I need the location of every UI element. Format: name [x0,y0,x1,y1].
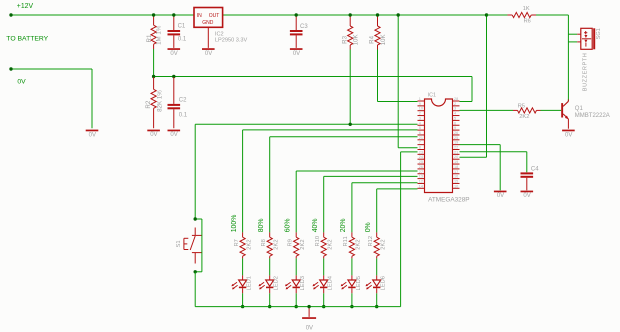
svg-text:MMBT2222A: MMBT2222A [575,113,610,119]
svg-text:80%: 80% [258,219,265,233]
svg-text:SG1: SG1 [596,28,602,39]
wire IC to LED4 column [324,175,418,177]
svg-text:0V: 0V [497,193,504,199]
svg-text:25: 25 [454,136,458,140]
svg-text:0V: 0V [523,193,530,199]
node battery 0V start [9,67,12,70]
node VCC rail [397,13,400,16]
wire AREF pin [460,156,487,158]
svg-text:5: 5 [454,116,456,120]
svg-text:R9: R9 [288,239,294,246]
wire R6 to buzzer [536,14,568,16]
svg-text:21: 21 [454,150,458,154]
svg-text:R8: R8 [261,239,267,246]
wire +12V rail left [11,14,194,16]
svg-text:2K2: 2K2 [519,114,529,120]
ground under C1 [168,48,181,50]
svg-text:1M 1%: 1M 1% [155,25,162,45]
node divider R1R2 [152,75,155,78]
svg-text:0.1: 0.1 [178,37,187,43]
node rail col 3 [295,305,298,308]
wire R3 to switch line [349,50,351,125]
svg-text:2: 2 [454,102,456,106]
capacitor C4 [521,172,534,174]
wire IC to LED3 column [296,170,417,172]
svg-text:1: 1 [419,97,421,101]
led LED3 [295,275,297,280]
wire switch to rail [194,272,196,307]
capacitor C2 [173,77,175,104]
ground under IC2 [202,48,215,50]
ground under C3 [290,48,303,50]
wire rail ground tap [308,307,310,317]
wire switch to IC [195,123,417,125]
svg-text:60%: 60% [284,219,291,233]
node rail col 4 [322,305,325,308]
wire gnd pin to ground [460,144,501,146]
svg-text:28: 28 [454,97,458,101]
svg-text:0.1: 0.1 [179,113,188,119]
svg-text:40%: 40% [312,219,319,233]
svg-text:8: 8 [419,146,421,150]
wire IC to LED2 column [270,136,418,138]
node R3 top [349,13,352,16]
wire buzzer pin1 [568,33,577,35]
svg-text:0V: 0V [170,132,177,138]
buzzer SG1 [577,33,581,35]
led LED1 [242,275,244,280]
svg-text:14: 14 [419,184,423,188]
svg-text:R2: R2 [145,100,152,108]
resistor R2 [153,77,155,89]
wire LED5 to rail [351,293,353,306]
svg-text:4: 4 [419,121,421,125]
svg-text:7: 7 [419,141,421,145]
resistor R4 [377,16,379,26]
wire R8 to LED2 [269,258,271,275]
svg-text:23: 23 [419,150,423,154]
svg-text:13: 13 [419,175,423,179]
svg-text:IN: IN [197,13,202,19]
ground bottom rail [302,317,316,319]
wire R9 to LED3 [295,258,297,275]
wire IC to LED5 column [352,182,418,184]
wire LED3 to rail [295,293,297,306]
capacitor C3 [295,16,297,30]
svg-text:C4: C4 [531,167,539,173]
wire IC2 GND pin [207,27,209,48]
wire R1 to divider [153,49,155,77]
svg-text:+12V: +12V [17,3,34,10]
svg-text:12: 12 [419,179,423,183]
node switch top [194,217,197,220]
svg-text:IC1: IC1 [428,93,436,99]
svg-text:LED6: LED6 [381,276,387,291]
svg-text:C3: C3 [300,24,308,30]
ground under C2 [168,130,181,132]
wire R7 to LED1 [242,258,244,275]
resistor R8 [269,232,271,237]
svg-text:Q1: Q1 [575,106,584,112]
svg-text:ATMEGA328P: ATMEGA328P [428,196,469,203]
svg-text:6: 6 [419,131,421,135]
svg-text:4: 4 [454,112,456,116]
svg-text:0V: 0V [293,51,300,57]
resistor R1 [153,16,155,25]
capacitor C1 [173,16,175,30]
wire switch drop [194,124,196,219]
transistor Q1 [561,103,563,117]
svg-text:2K2: 2K2 [300,239,306,249]
node C1 top [172,13,175,16]
svg-text:2K2: 2K2 [273,239,279,249]
resistor R11 [351,232,353,237]
wire battery 0V [11,68,92,70]
wire divider tap [154,76,472,78]
svg-text:R5: R5 [518,103,525,109]
node R1 top [152,13,155,16]
svg-text:0V: 0V [306,325,313,331]
svg-text:0V: 0V [17,79,26,86]
svg-text:R10: R10 [315,236,321,247]
resistor R7 [242,232,244,237]
svg-text:3: 3 [419,116,421,120]
svg-text:26: 26 [419,165,423,169]
wire R11 to LED5 [351,258,353,275]
svg-text:25: 25 [419,160,423,164]
svg-text:10K: 10K [353,34,360,46]
svg-text:2K2: 2K2 [327,239,333,249]
svg-text:GND: GND [202,20,214,26]
svg-text:19: 19 [454,141,458,145]
wire LED2 to rail [269,293,271,306]
svg-text:LP2950 3.3V: LP2950 3.3V [215,37,248,43]
svg-text:LED2: LED2 [274,276,280,291]
svg-text:LED5: LED5 [356,276,362,291]
svg-text:10: 10 [454,184,458,188]
svg-text:0V: 0V [565,132,572,138]
wire AVCC to C4 [460,151,527,153]
resistor R6 [487,14,508,16]
wire switch bypass [195,218,202,220]
node rail ground tap [307,305,310,308]
svg-text:9: 9 [454,126,456,130]
svg-text:18: 18 [454,165,458,169]
svg-text:24: 24 [419,155,423,159]
svg-text:R11: R11 [343,236,349,246]
svg-text:C2: C2 [179,97,187,103]
node R3 bottom [349,123,352,126]
svg-text:2K2: 2K2 [380,239,386,249]
svg-text:27: 27 [419,170,423,174]
ic U1 ATMEGA328P body [425,99,453,193]
node C3 top [295,13,298,16]
svg-text:0V: 0V [89,132,96,138]
wire R10 to LED4 [323,258,325,275]
wire buzzer pin2 [568,41,577,43]
svg-text:R6: R6 [524,18,531,24]
svg-text:19: 19 [454,160,458,164]
svg-text:17: 17 [454,170,458,174]
voltage regulator IC2 LP2950 box [194,8,223,28]
svg-text:10: 10 [419,107,423,111]
svg-text:R3: R3 [341,35,348,43]
svg-text:16: 16 [454,175,458,179]
resistor R12 [376,232,378,237]
svg-text:R7: R7 [234,239,240,246]
node rail col 1 [241,305,244,308]
switch S1 [194,228,196,236]
led LED2 [269,275,271,280]
svg-text:0V: 0V [150,132,157,138]
wire IC to LED1 column [243,129,418,131]
svg-text:3: 3 [454,107,456,111]
svg-text:100%: 100% [231,215,238,233]
svg-text:5: 5 [419,126,421,130]
svg-text:TO BATTERY: TO BATTERY [6,36,48,43]
ground under R2 [147,130,160,132]
ground under C4 [521,191,534,193]
wire GND pin to bottom rail [401,151,418,153]
led LED4 [323,275,325,280]
svg-text:1K: 1K [523,6,530,12]
led LED5 [351,275,353,280]
svg-text:15: 15 [454,179,458,183]
node 3V3 branch [485,13,488,16]
svg-text:9: 9 [419,102,421,106]
svg-text:OUT: OUT [209,13,220,19]
resistor R3 [349,16,351,26]
wire 3V3 to VCC pin [397,16,399,148]
svg-text:6: 6 [454,121,456,125]
wire 3V3 down to AREF [486,16,488,158]
resistor R5 [513,109,518,111]
svg-text:22: 22 [454,146,458,150]
svg-text:10K: 10K [380,34,387,46]
resistor R10 [323,232,325,237]
wire R5 to Q1 base [541,109,562,111]
wire 3V3 rail right of IC2 [223,14,508,16]
node rail col 5 [350,305,353,308]
led LED6 [376,275,378,280]
svg-text:LED3: LED3 [300,276,306,291]
svg-text:R12: R12 [368,236,374,247]
ground under Q1 [562,130,575,132]
node divider C2 [172,75,175,78]
svg-text:LED1: LED1 [247,276,253,291]
svg-text:0%: 0% [365,222,372,232]
svg-text:0V: 0V [205,51,212,57]
svg-text:82K 1%: 82K 1% [156,90,163,112]
svg-text:0V: 0V [170,51,177,57]
wire IC to LED6 column [377,188,418,190]
wire IC to R5 [460,109,514,111]
node +12V rail start [9,13,12,16]
svg-text:R1: R1 [146,34,153,42]
node switch bottom [194,270,197,273]
wire LED6 to rail [376,293,378,306]
svg-text:21: 21 [419,136,423,140]
svg-text:R4: R4 [369,35,376,43]
svg-text:26: 26 [454,131,458,135]
resistor R9 [295,232,297,237]
wire LED4 to rail [323,293,325,306]
wire R12 to LED6 [376,258,378,275]
wire bottom rail [195,306,400,308]
svg-text:S1: S1 [176,240,182,247]
ic U1 pins [418,100,425,102]
svg-text:2K2: 2K2 [246,239,252,249]
node rail col 2 [268,305,271,308]
node R4 top [376,13,379,16]
svg-text:2: 2 [419,112,421,116]
svg-text:BUZZERPTH: BUZZERPTH [582,53,588,92]
wire R4 to reset pin [377,50,379,102]
svg-text:LED4: LED4 [328,275,334,290]
svg-text:20%: 20% [340,219,347,233]
svg-text:C1: C1 [178,24,186,30]
svg-text:20: 20 [454,155,458,159]
ground right of IC [494,191,507,193]
wire LED1 to rail [242,293,244,306]
svg-text:2K2: 2K2 [356,239,362,249]
ground battery 0V [86,130,99,132]
node rail col 6 [375,305,378,308]
